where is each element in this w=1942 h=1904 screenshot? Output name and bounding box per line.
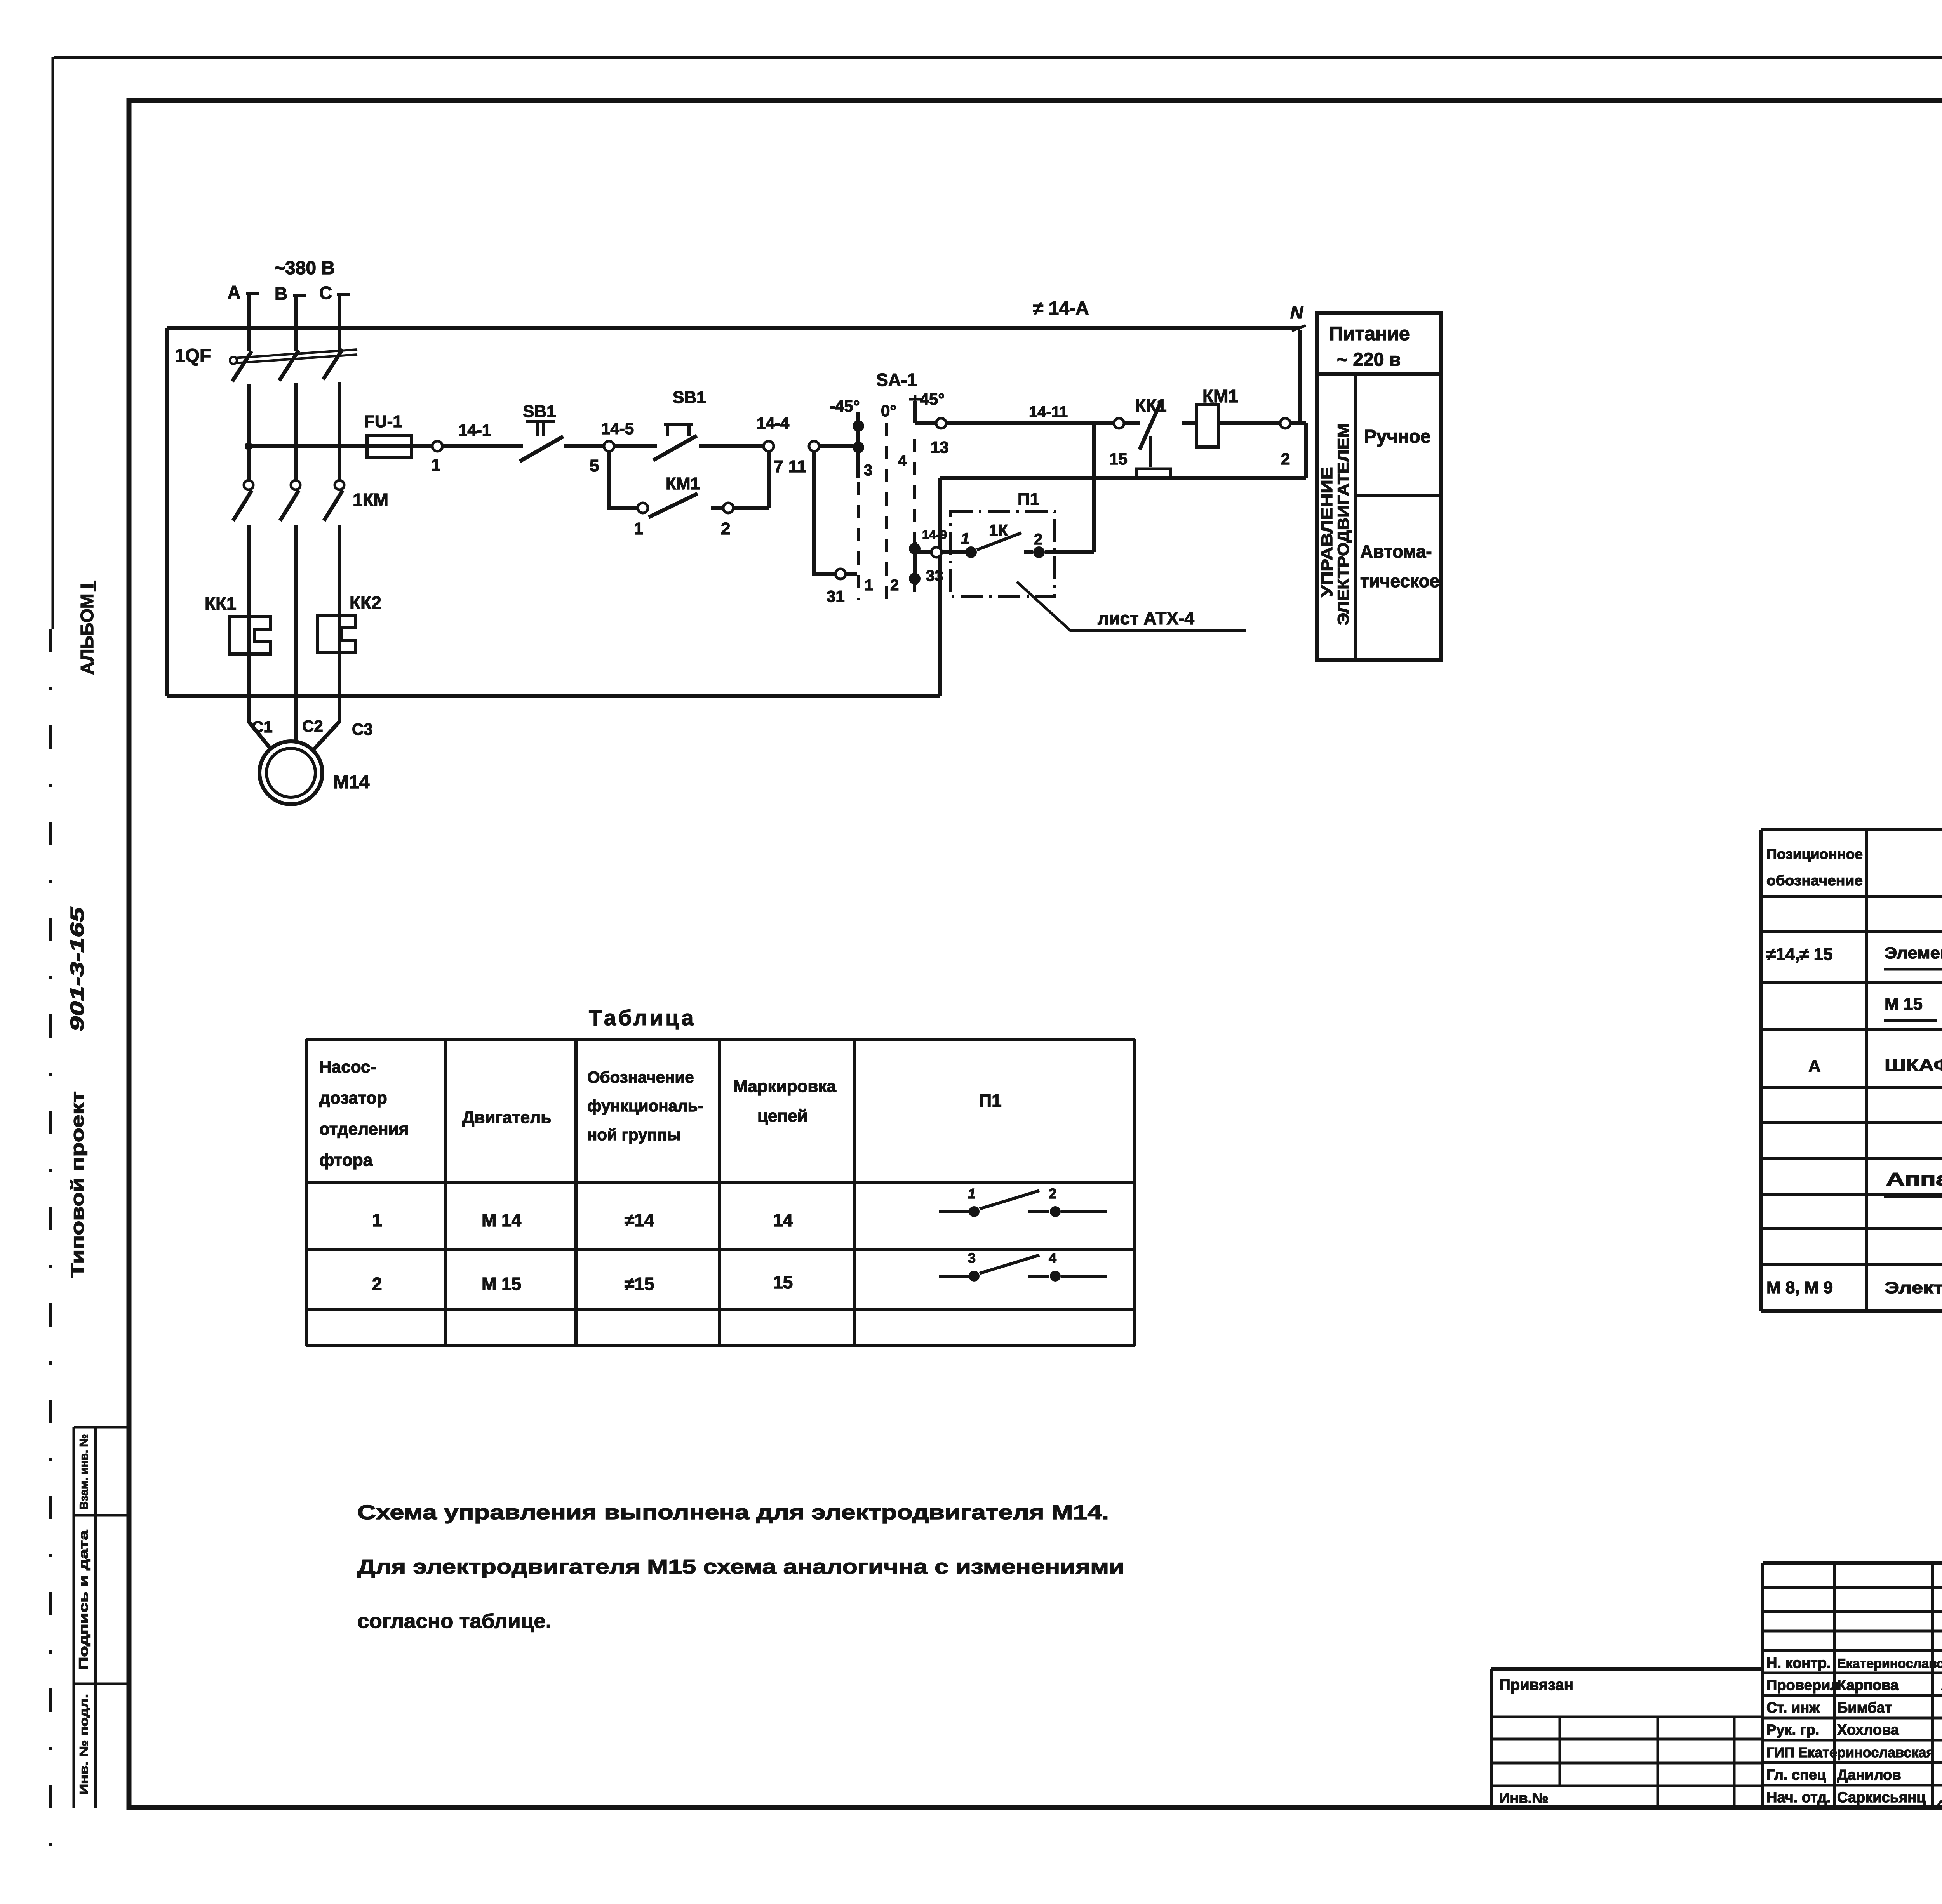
outer page border top <box>54 56 1942 59</box>
node 15 <box>1114 418 1124 428</box>
node 2 <box>1280 418 1290 428</box>
wire 13 to control <box>915 421 936 425</box>
control tap wire 14-1 <box>245 442 252 450</box>
svg-text:Насос-: Насос- <box>319 1057 376 1076</box>
svg-text:Позиционное: Позиционное <box>1766 846 1863 862</box>
neutral N riser <box>1298 330 1302 423</box>
svg-text:≠14: ≠14 <box>625 1210 654 1230</box>
svg-text:Карпова: Карпова <box>1837 1677 1899 1694</box>
svg-text:УПРАВЛЕНИЕ: УПРАВЛЕНИЕ <box>1319 467 1336 597</box>
svg-text:Инв.№: Инв.№ <box>1499 1790 1549 1807</box>
svg-text:Бимбат: Бимбат <box>1837 1700 1892 1716</box>
svg-text:Н. контр.: Н. контр. <box>1766 1655 1831 1671</box>
svg-text:13: 13 <box>931 438 949 456</box>
left margin stamp boxes <box>74 1427 96 1808</box>
svg-text:2: 2 <box>890 577 899 594</box>
svg-text:15: 15 <box>1109 450 1128 468</box>
svg-text:П1: П1 <box>979 1090 1002 1111</box>
svg-text:Данилов: Данилов <box>1837 1767 1901 1783</box>
svg-text:31: 31 <box>827 587 845 605</box>
svg-text:Рук. гр.: Рук. гр. <box>1766 1722 1819 1738</box>
svg-text:≠ 14-А: ≠ 14-А <box>1033 298 1089 319</box>
1QF pole A <box>232 294 252 480</box>
svg-text:14-4: 14-4 <box>757 414 790 432</box>
node 7 <box>764 441 774 451</box>
svg-text:2: 2 <box>721 519 730 538</box>
svg-text:14-9: 14-9 <box>922 528 947 542</box>
svg-text:C: C <box>319 283 332 303</box>
1QF pole C <box>323 294 343 480</box>
svg-text:Обозначение: Обозначение <box>587 1068 694 1086</box>
svg-text:дозатор: дозатор <box>319 1088 387 1108</box>
svg-text:КК2: КК2 <box>350 593 381 613</box>
1KM main contact B <box>291 480 300 490</box>
svg-text:7: 7 <box>774 457 783 476</box>
svg-text:15: 15 <box>773 1272 793 1292</box>
motor feeder wires C1 C2 C3 <box>249 694 339 750</box>
binding block Привязан <box>1491 1669 1763 1808</box>
svg-text:обозначение: обозначение <box>1766 873 1863 889</box>
svg-text:тическое: тическое <box>1360 571 1439 591</box>
svg-text:А: А <box>1808 1057 1821 1076</box>
svg-text:фтора: фтора <box>319 1151 373 1170</box>
svg-text:0°: 0° <box>881 402 896 420</box>
svg-text:М 15: М 15 <box>1885 995 1923 1014</box>
top rail wire 14-A <box>167 326 1300 330</box>
svg-text:КК1: КК1 <box>1135 395 1167 416</box>
svg-text:Хохлова: Хохлова <box>1837 1722 1899 1738</box>
svg-text:М14: М14 <box>333 772 370 793</box>
outer page border left (partly dashed) <box>52 57 54 629</box>
svg-text:Аппаратура по месту: Аппаратура по месту <box>1886 1169 1942 1189</box>
svg-text:П1: П1 <box>1018 490 1039 509</box>
svg-text:A: A <box>228 282 240 302</box>
svg-text:Саркисьянц: Саркисьянц <box>1837 1789 1926 1806</box>
svg-text:5: 5 <box>590 456 599 475</box>
node 5 <box>604 441 614 451</box>
svg-text:4: 4 <box>1049 1250 1056 1266</box>
svg-text:33: 33 <box>926 567 943 584</box>
svg-text:ЭЛЕКТРОДВИГАТЕЛЕМ: ЭЛЕКТРОДВИГАТЕЛЕМ <box>1335 423 1352 625</box>
svg-text:Автома-: Автома- <box>1360 541 1432 562</box>
connector P1 dash-dot box <box>950 512 1055 596</box>
svg-text:11: 11 <box>788 457 807 476</box>
svg-text:Взам. инв. №: Взам. инв. № <box>78 1434 90 1510</box>
svg-text:Двигатель: Двигатель <box>462 1108 551 1127</box>
svg-text:цепей: цепей <box>757 1106 808 1125</box>
svg-text:1: 1 <box>372 1210 382 1230</box>
svg-text:отделения: отделения <box>319 1120 409 1139</box>
svg-text:SB1: SB1 <box>673 388 706 407</box>
svg-text:2: 2 <box>1281 450 1290 468</box>
svg-text:901-3-165: 901-3-165 <box>67 906 88 1031</box>
svg-text:АЛЬБОМ I̲: АЛЬБОМ I̲ <box>77 581 97 675</box>
svg-text:1: 1 <box>865 577 873 594</box>
node 1 <box>432 441 442 451</box>
svg-text:2: 2 <box>1049 1186 1056 1202</box>
SA-1 position column 0 <box>885 423 888 600</box>
svg-text:М 14: М 14 <box>482 1210 522 1230</box>
1KM main contact C <box>335 480 344 490</box>
svg-text:1: 1 <box>634 519 643 538</box>
svg-text:~ 220 в: ~ 220 в <box>1337 350 1401 370</box>
table Таблица grid <box>306 1039 1135 1346</box>
1QF crossbar linkage <box>235 350 357 363</box>
svg-text:N: N <box>1290 302 1303 322</box>
parts list grid <box>1761 830 1942 1311</box>
svg-text:Электродвигатель А02-31-4: Электродвигатель А02-31-4 ~380В; 1,1 квт <box>1885 1278 1942 1297</box>
svg-text:С3: С3 <box>352 720 373 738</box>
svg-text:2: 2 <box>1034 531 1042 548</box>
svg-text:Нач. отд.: Нач. отд. <box>1766 1789 1831 1806</box>
svg-text:SA-1: SA-1 <box>876 370 917 390</box>
svg-text:Для электродвигателя М15 сх: Для электродвигателя М15 схема аналогичн… <box>357 1556 1124 1578</box>
1QF pole B <box>279 295 299 480</box>
legend box Питание <box>1317 313 1441 660</box>
svg-text:лист АТХ-4: лист АТХ-4 <box>1098 608 1194 628</box>
svg-text:1КМ: 1КМ <box>353 490 388 510</box>
svg-text:Привязан: Привязан <box>1499 1676 1573 1694</box>
svg-text:Гл. спец: Гл. спец <box>1766 1767 1826 1783</box>
svg-text:функциональ-: функциональ- <box>587 1097 703 1115</box>
svg-text:≠14,≠ 15: ≠14,≠ 15 <box>1766 945 1833 964</box>
SA-1 position column -45 <box>856 412 860 478</box>
svg-text:1: 1 <box>431 456 440 475</box>
node 11 <box>809 441 819 451</box>
svg-text:ГИП Екатеринославская: ГИП Екатеринославская <box>1766 1744 1934 1760</box>
svg-text:Проверил: Проверил <box>1766 1677 1839 1694</box>
svg-text:1: 1 <box>968 1186 976 1202</box>
leader line лист АТХ-4 <box>1017 582 1246 631</box>
svg-text:~380 В: ~380 В <box>274 258 335 278</box>
svg-text:Маркировка: Маркировка <box>733 1077 836 1096</box>
svg-text:М 8, М 9: М 8, М 9 <box>1766 1278 1833 1297</box>
svg-text:SB1: SB1 <box>523 402 556 421</box>
svg-text:4: 4 <box>898 452 907 469</box>
svg-text:≠15: ≠15 <box>625 1274 654 1294</box>
svg-text:согласно таблице.: согласно таблице. <box>357 1610 552 1633</box>
branch to contact 31 <box>814 451 835 574</box>
wire 14-1 <box>442 444 523 448</box>
svg-text:Типовой проект: Типовой проект <box>67 1091 87 1278</box>
svg-text:2: 2 <box>372 1274 382 1294</box>
1KM main contact A <box>244 480 253 490</box>
svg-text:1К: 1К <box>989 521 1008 539</box>
svg-text:Элементы управления электрод: Элементы управления электродвигателями М… <box>1885 944 1942 962</box>
svg-text:B: B <box>275 283 287 304</box>
svg-text:Инв. № подл.: Инв. № подл. <box>78 1694 90 1795</box>
title block bottom edge <box>1491 1805 1942 1810</box>
svg-text:3: 3 <box>864 462 872 479</box>
cabinet enclosure box (шкаф А) <box>167 328 1306 696</box>
svg-text:ШКАФ УПРАВЛЕНИЯ ШУ 5104 - 03: ШКАФ УПРАВЛЕНИЯ ШУ 5104 - 03В2Д <box>1885 1056 1942 1075</box>
svg-text:14-5: 14-5 <box>601 419 634 438</box>
svg-text:1QF: 1QF <box>175 346 211 366</box>
svg-text:14-1: 14-1 <box>458 421 491 439</box>
motor M14 <box>259 741 322 804</box>
svg-text:14-11: 14-11 <box>1029 403 1068 421</box>
svg-text:С1: С1 <box>252 718 273 736</box>
svg-text:КМ1: КМ1 <box>666 474 700 493</box>
svg-text:Питание: Питание <box>1329 323 1410 344</box>
svg-text:FU-1: FU-1 <box>364 412 402 431</box>
svg-text:Таблица: Таблица <box>589 1005 696 1030</box>
svg-text:ной группы: ной группы <box>587 1125 681 1144</box>
SA-1 position column +45 <box>909 398 921 401</box>
svg-text:14: 14 <box>773 1210 793 1230</box>
svg-text:Екатеринославская: Екатеринославская <box>1837 1656 1942 1671</box>
svg-text:М 15: М 15 <box>482 1274 521 1294</box>
svg-text:С2: С2 <box>302 717 323 735</box>
svg-text:Схема управления выполнена: Схема управления выполнена для электродв… <box>357 1501 1109 1524</box>
svg-text:-45°: -45° <box>830 397 860 415</box>
svg-text:3: 3 <box>968 1250 976 1266</box>
svg-text:Ст. инж: Ст. инж <box>1766 1700 1820 1716</box>
svg-text:Ручное: Ручное <box>1364 426 1431 447</box>
svg-text:КК1: КК1 <box>205 593 237 614</box>
title block: signature table grid <box>1763 1561 1942 1565</box>
svg-text:1: 1 <box>961 530 969 547</box>
svg-text:Подпись и дата: Подпись и дата <box>77 1530 90 1670</box>
